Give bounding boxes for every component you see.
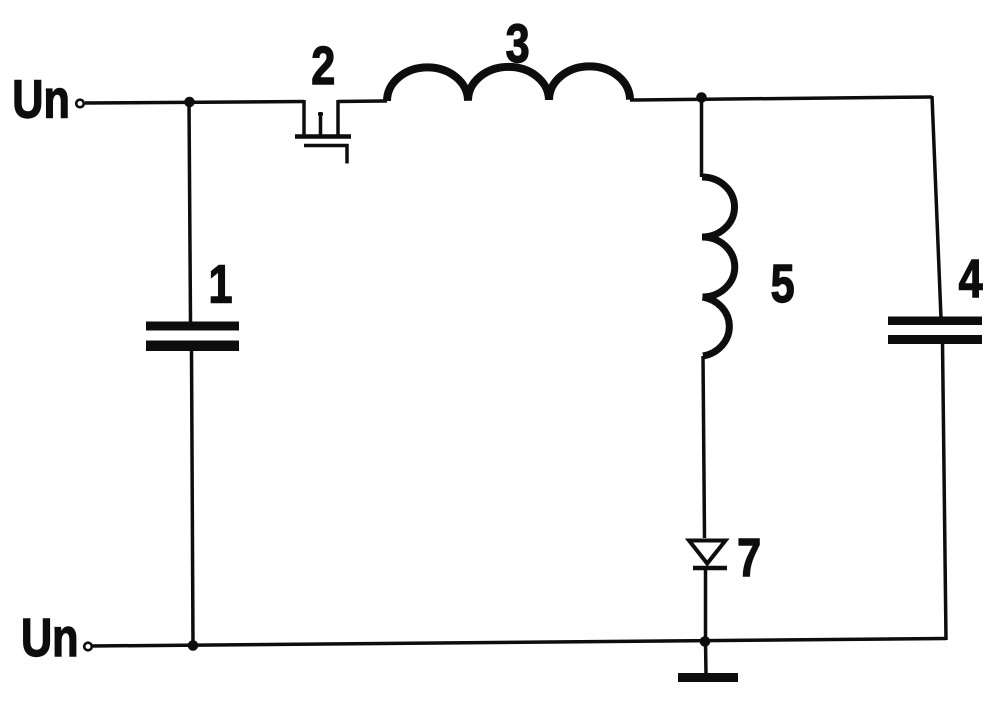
svg-text:1: 1 [209,255,233,315]
svg-text:Un: Un [21,609,79,669]
svg-text:5: 5 [771,255,795,315]
svg-text:2: 2 [311,37,335,97]
svg-text:7: 7 [737,529,761,589]
svg-text:Un: Un [12,70,70,130]
svg-text:4: 4 [959,250,983,310]
svg-text:3: 3 [506,15,530,75]
